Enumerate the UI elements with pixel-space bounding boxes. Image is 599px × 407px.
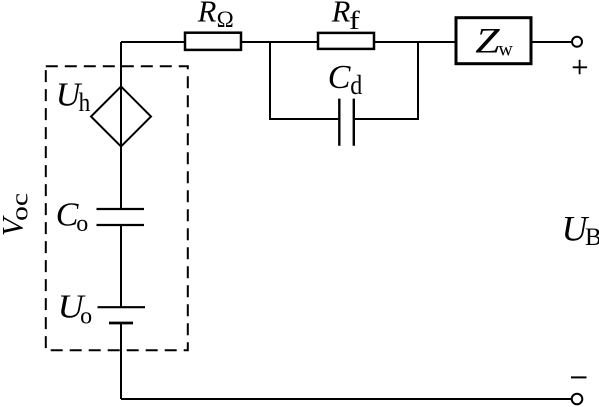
- svg-text:C: C: [328, 59, 351, 96]
- svg-text:oc: oc: [8, 193, 34, 221]
- svg-text:Z: Z: [475, 21, 501, 61]
- svg-text:h: h: [79, 88, 91, 117]
- svg-text:d: d: [350, 70, 362, 100]
- svg-text:f: f: [349, 6, 360, 35]
- svg-text:B: B: [585, 224, 599, 251]
- svg-text:o: o: [80, 303, 92, 329]
- svg-text:R: R: [197, 0, 217, 29]
- svg-text:R: R: [331, 0, 351, 29]
- svg-text:w: w: [498, 39, 513, 61]
- svg-text:o: o: [76, 211, 88, 237]
- svg-text:Ω: Ω: [217, 7, 234, 32]
